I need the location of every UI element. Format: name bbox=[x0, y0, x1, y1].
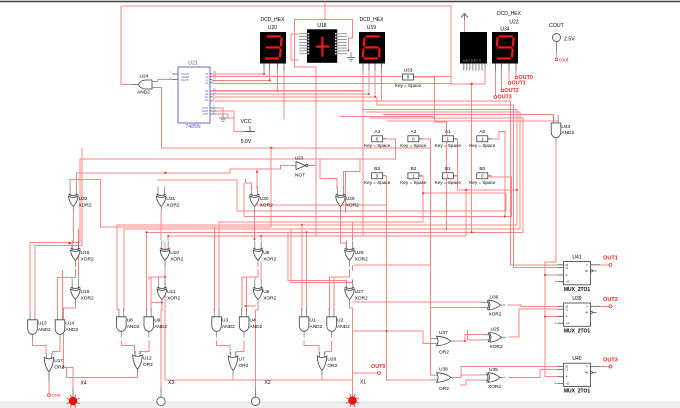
svg-text:AEQB: AEQB bbox=[202, 110, 209, 113]
svg-text:NOT: NOT bbox=[295, 173, 305, 179]
svg-text:OR2: OR2 bbox=[143, 362, 153, 368]
svg-text:U26: U26 bbox=[355, 250, 364, 256]
svg-text:U38: U38 bbox=[439, 367, 448, 373]
gate U17 OR2 bbox=[47, 353, 52, 358]
svg-text:U3: U3 bbox=[222, 318, 228, 324]
gate U12 OR2 bbox=[135, 351, 140, 356]
svg-text:U16: U16 bbox=[81, 289, 90, 295]
display U19 bbox=[359, 32, 385, 64]
svg-text:U2: U2 bbox=[337, 318, 343, 324]
wire U31 out to U10 bbox=[160, 213, 162, 240]
wire bus y83.7 bbox=[212, 83, 451, 85]
svg-text:AND2: AND2 bbox=[38, 327, 51, 333]
wire B2 vertical lower to U37 bbox=[423, 331, 431, 343]
svg-text:OR2: OR2 bbox=[439, 386, 449, 392]
svg-text:ALTB: ALTB bbox=[202, 113, 208, 116]
wire col4 row C feeders bbox=[288, 232, 346, 280]
svg-text:U36: U36 bbox=[490, 294, 499, 300]
wire AND outputs to OR inputs col4 bbox=[304, 341, 319, 354]
wire col2 row C feeders bbox=[158, 277, 160, 280]
wire U11 out branch tee bbox=[151, 302, 162, 304]
gate U8 AND2 bbox=[119, 308, 124, 317]
svg-text:Y: Y bbox=[586, 304, 588, 308]
gate U38 OR2 bbox=[431, 375, 438, 380]
wire U25 input2 bbox=[467, 330, 483, 340]
wire U35 out to U40 I1 bbox=[509, 369, 557, 377]
wire second pass-through col1 bbox=[81, 148, 83, 246]
svg-text:U22: U22 bbox=[509, 20, 518, 26]
svg-text:AND2: AND2 bbox=[127, 324, 140, 330]
wire bus y80.4 bbox=[212, 79, 270, 81]
svg-text:5.0V: 5.0V bbox=[241, 139, 252, 145]
svg-text:U27: U27 bbox=[355, 289, 364, 295]
svg-text:7485N: 7485N bbox=[185, 124, 201, 130]
svg-text:OUT2: OUT2 bbox=[603, 297, 618, 303]
svg-text:U40: U40 bbox=[572, 356, 581, 362]
wire U31 loop bbox=[157, 180, 237, 211]
svg-text:XOR2: XOR2 bbox=[170, 257, 183, 263]
net flag OUT3 right bbox=[600, 366, 609, 368]
wire U6 out branch tee bbox=[246, 305, 257, 307]
wire feeder band L2 y211 to U31 loop bbox=[237, 210, 506, 212]
svg-text:W: W bbox=[585, 269, 588, 273]
svg-text:AND2: AND2 bbox=[222, 324, 235, 330]
svg-text:U19: U19 bbox=[367, 25, 376, 31]
wire U5 out to U4 feeder bbox=[242, 269, 258, 311]
svg-text:Key = Space: Key = Space bbox=[435, 143, 462, 148]
net flag OUT1 right bbox=[600, 264, 609, 266]
svg-text:U23: U23 bbox=[295, 156, 304, 162]
gate U14 AND2 bbox=[58, 311, 63, 320]
svg-text:U9: U9 bbox=[154, 318, 160, 324]
wire U30 out to U5 bbox=[254, 213, 256, 240]
svg-text:VCC: VCC bbox=[241, 119, 252, 125]
wire cout segment y377.3 bbox=[67, 367, 138, 377]
svg-text:U6: U6 bbox=[263, 289, 269, 295]
svg-text:U18: U18 bbox=[317, 23, 326, 29]
ground near U21 bbox=[219, 115, 227, 122]
svg-text:U17: U17 bbox=[54, 358, 63, 364]
wire col2 U9 feeders bbox=[146, 280, 148, 311]
wire U37 out to U25 bbox=[456, 335, 484, 341]
wire U32 out to U15 bbox=[72, 213, 74, 242]
svg-text:MUX_2TO1: MUX_2TO1 bbox=[564, 329, 591, 335]
wire X1 drop bbox=[352, 378, 354, 396]
svg-text:U39: U39 bbox=[572, 296, 581, 302]
svg-text:A: A bbox=[566, 315, 568, 319]
svg-text:~G: ~G bbox=[566, 321, 571, 325]
gate U28 OR2 bbox=[320, 352, 325, 357]
svg-text:AND2: AND2 bbox=[337, 324, 350, 330]
gate U9 AND2 bbox=[146, 308, 151, 317]
gate U13 AND2 bbox=[30, 311, 35, 320]
svg-text:OAGTB: OAGTB bbox=[181, 73, 190, 76]
svg-text:AND2: AND2 bbox=[561, 130, 574, 136]
net flag OUT0 bbox=[515, 76, 518, 79]
display U18 plus box bbox=[307, 29, 337, 63]
wire U18 bottom-left drop bbox=[295, 47, 316, 237]
gate U35 XOR2 bbox=[481, 375, 488, 380]
wire U16 out toward X4 bbox=[64, 306, 76, 368]
svg-text:U15: U15 bbox=[81, 250, 90, 256]
svg-text:U5: U5 bbox=[263, 250, 269, 256]
wire A3 pass-through col1 bbox=[79, 159, 81, 243]
svg-text:Key = Space: Key = Space bbox=[364, 180, 391, 185]
svg-text:AND2: AND2 bbox=[310, 324, 323, 330]
gate U7 OR2 bbox=[231, 352, 236, 357]
wire U24 input1 lead bbox=[157, 81, 158, 83]
wire U24 output red lead-in bbox=[131, 84, 138, 86]
wire col3 xor feeder bbox=[260, 236, 262, 240]
svg-text:U28: U28 bbox=[327, 357, 336, 363]
wire select branches bbox=[545, 274, 557, 276]
wire U33 output route bbox=[413, 77, 446, 229]
svg-text:COUT: COUT bbox=[549, 23, 565, 29]
wire AND outputs to OR inputs col2 bbox=[121, 341, 134, 354]
display U34 bbox=[492, 32, 518, 64]
wire U35 inputs bbox=[461, 370, 482, 375]
wire feeder band L8 y236 bbox=[168, 236, 466, 240]
svg-text:MUX_2TO1: MUX_2TO1 bbox=[564, 389, 591, 395]
svg-text:U13: U13 bbox=[38, 321, 47, 327]
svg-text:XOR2: XOR2 bbox=[81, 296, 94, 302]
U21 left pins bbox=[172, 74, 178, 80]
svg-text:U14: U14 bbox=[65, 321, 74, 327]
svg-text:DCD_HEX: DCD_HEX bbox=[360, 17, 385, 23]
wire U24 input2 drop bbox=[160, 88, 430, 148]
svg-text:XOR2: XOR2 bbox=[346, 203, 359, 209]
wire pass-through left of U30 bbox=[243, 183, 245, 216]
svg-text:U30: U30 bbox=[260, 196, 269, 202]
svg-text:X1: X1 bbox=[360, 380, 366, 386]
wire U19 pin drops bbox=[362, 64, 364, 237]
net flag OUT2 bbox=[501, 89, 504, 92]
svg-text:B1: B1 bbox=[445, 166, 451, 172]
svg-text:I1: I1 bbox=[566, 266, 569, 270]
gate U6 XOR2 bbox=[255, 280, 261, 290]
wire U18 top feed from sheet top bbox=[324, 2, 326, 20]
svg-text:Y: Y bbox=[586, 263, 588, 267]
svg-text:DCD_HEX: DCD_HEX bbox=[497, 11, 522, 17]
wire bus y76.6 bbox=[212, 76, 451, 78]
wire A2 net bbox=[418, 139, 431, 375]
wire bus segment y116.5 bbox=[340, 116, 434, 118]
svg-text:B3: B3 bbox=[374, 166, 380, 172]
svg-text:XOR2: XOR2 bbox=[355, 296, 368, 302]
svg-text:A: A bbox=[566, 375, 568, 379]
wire feeder band B3 y205 bbox=[254, 204, 386, 206]
svg-text:Key = Space: Key = Space bbox=[400, 180, 427, 185]
svg-text:Y: Y bbox=[586, 365, 588, 369]
wire B3 long vertical to U38 bbox=[387, 205, 431, 380]
wire U15 out to U14 feeder bbox=[58, 269, 76, 311]
sheet top border bbox=[0, 1, 680, 3]
ground under U18 bbox=[347, 52, 355, 61]
gate U25 XOR2 bbox=[483, 335, 490, 340]
svg-text:U11: U11 bbox=[167, 289, 176, 295]
gate U11 XOR2 bbox=[159, 280, 165, 290]
wire U26 out horizontal to right bbox=[355, 264, 431, 266]
svg-text:U32: U32 bbox=[79, 196, 88, 202]
wire U29 input loop bbox=[320, 159, 337, 189]
wire U24 in1 to U21 left pin bbox=[158, 80, 172, 82]
svg-text:AND2: AND2 bbox=[65, 327, 78, 333]
wire U17 out to cout flag bbox=[48, 382, 50, 394]
svg-text:A0: A0 bbox=[479, 129, 485, 135]
wire A0 net bbox=[488, 131, 505, 216]
gate U32 XOR2 bbox=[70, 187, 76, 197]
svg-text:XOR2: XOR2 bbox=[81, 257, 94, 263]
svg-text:OALTB: OALTB bbox=[181, 79, 189, 82]
svg-text:I1: I1 bbox=[566, 368, 569, 372]
gate U43 AND2 vertical bbox=[554, 122, 559, 124]
wire U18 top loop bbox=[295, 20, 353, 51]
wire bus y96.9 bbox=[212, 96, 375, 98]
wire U27 out to X1 bbox=[350, 306, 353, 389]
gate U3 AND2 bbox=[214, 308, 219, 317]
svg-text:ABCDEFG: ABCDEFG bbox=[463, 59, 482, 63]
svg-text:OUT3: OUT3 bbox=[497, 94, 511, 100]
svg-text:Key = Space: Key = Space bbox=[400, 143, 427, 148]
wire U38 out to U40 I0 bbox=[456, 367, 557, 378]
net flag cout bottom bbox=[48, 394, 51, 397]
wire U12 out joins line A bbox=[137, 370, 139, 378]
wire U36 output to U39 bbox=[508, 305, 558, 306]
U21 right pins bbox=[210, 73, 212, 75]
svg-text:Key = Space: Key = Space bbox=[469, 143, 496, 148]
wire A3 net bbox=[80, 139, 396, 242]
svg-text:A2: A2 bbox=[410, 129, 416, 135]
svg-text:B0: B0 bbox=[479, 166, 485, 172]
wire X4 stem bbox=[72, 388, 74, 397]
svg-text:XOR2: XOR2 bbox=[355, 257, 368, 263]
svg-text:OUT1: OUT1 bbox=[603, 256, 618, 262]
wire bus y90.6 bbox=[212, 90, 363, 92]
svg-text:OUT1: OUT1 bbox=[512, 80, 526, 86]
svg-text:Key = Space: Key = Space bbox=[395, 83, 422, 88]
gate U30 XOR2 bbox=[251, 187, 257, 197]
svg-text:U41: U41 bbox=[572, 255, 581, 261]
svg-text:cout: cout bbox=[52, 393, 62, 399]
svg-text:OUT2: OUT2 bbox=[504, 88, 518, 94]
svg-text:U8: U8 bbox=[127, 318, 133, 324]
gate U27 XOR2 bbox=[346, 280, 352, 290]
wire feeder band L4 y222.2 bbox=[219, 222, 423, 311]
wire U10 out to U9 feeder bbox=[149, 266, 165, 281]
wire U21 lower pins to ground and VCC bbox=[216, 108, 223, 115]
wire U37 in1 branch bbox=[430, 338, 432, 340]
wire U7 out joins line B bbox=[232, 371, 234, 381]
svg-text:U12: U12 bbox=[143, 355, 152, 361]
junction U18 right pin bbox=[347, 49, 349, 51]
gate U1 AND2 bbox=[302, 308, 307, 317]
svg-text:A1: A1 bbox=[445, 129, 451, 135]
svg-text:U25: U25 bbox=[491, 327, 500, 333]
svg-text:XOR2: XOR2 bbox=[263, 257, 276, 263]
wire B3 net drop bbox=[386, 176, 388, 205]
wire bus B3 y91 bbox=[212, 90, 363, 92]
wire OUT0 net flag wire bbox=[353, 372, 378, 374]
wire feeder band L3 y216.5 bbox=[244, 216, 512, 218]
svg-text:AND2: AND2 bbox=[250, 324, 263, 330]
net flag OUT1 bbox=[508, 82, 511, 85]
wire col1 U13 feeders bbox=[30, 241, 80, 243]
svg-text:OR2: OR2 bbox=[239, 363, 249, 369]
svg-text:OAEQB: OAEQB bbox=[181, 76, 190, 79]
gate U26 XOR2 bbox=[346, 241, 352, 251]
svg-text:U37: U37 bbox=[439, 330, 448, 336]
svg-text:OR2: OR2 bbox=[327, 363, 337, 369]
svg-text:XOR2: XOR2 bbox=[489, 312, 502, 318]
wire U29 out to U26 bbox=[341, 213, 347, 248]
svg-text:XOR2: XOR2 bbox=[490, 344, 503, 350]
wire bus y101 long to U41 I0 bbox=[212, 101, 557, 265]
gate U29 XOR2 bbox=[337, 187, 343, 197]
wire U25 out to U39 I1 bbox=[509, 309, 558, 337]
svg-text:B2: B2 bbox=[410, 166, 416, 172]
wire U20 pin drops bbox=[263, 64, 265, 74]
wire col1 U32 input feeder bbox=[70, 180, 271, 228]
wire NOT output bbox=[313, 165, 316, 167]
svg-text:XOR2: XOR2 bbox=[263, 296, 276, 302]
svg-text:U33: U33 bbox=[404, 68, 413, 74]
svg-text:U7: U7 bbox=[239, 357, 245, 363]
wire U26 out to U2 feeder bbox=[329, 269, 349, 311]
net flag OUT3 bbox=[494, 96, 497, 99]
svg-text:XOR2: XOR2 bbox=[260, 203, 273, 209]
svg-text:U35: U35 bbox=[489, 367, 498, 373]
svg-text:OR2: OR2 bbox=[54, 364, 64, 370]
svg-text:XOR2: XOR2 bbox=[167, 296, 180, 302]
wire col4 xor feeder bbox=[352, 222, 354, 240]
wire feeder band L7 y232.3 bbox=[147, 232, 524, 280]
wire feeder band L5 y224.8 bbox=[117, 225, 517, 311]
wire B1 net drop bbox=[452, 175, 457, 177]
wire U11 out to X3 bbox=[160, 306, 163, 388]
svg-text:U4: U4 bbox=[250, 318, 256, 324]
wire bottom right long y331 bbox=[353, 330, 424, 332]
wire AND outputs to OR inputs col3 bbox=[217, 341, 231, 354]
svg-text:XOR2: XOR2 bbox=[166, 203, 179, 209]
net flag OUT0 bottom bbox=[378, 372, 381, 375]
svg-text:OR2: OR2 bbox=[439, 350, 449, 356]
wire B0 net drop bbox=[488, 176, 512, 217]
net flag OUT2 right bbox=[600, 305, 609, 307]
wire bus A3 row y73.8 bbox=[212, 73, 264, 75]
svg-text:U1: U1 bbox=[310, 318, 316, 324]
svg-text:Key = Space: Key = Space bbox=[364, 143, 391, 148]
svg-text:2.5V: 2.5V bbox=[564, 37, 575, 43]
svg-text:I1: I1 bbox=[566, 307, 569, 311]
gate U5 XOR2 bbox=[255, 241, 261, 251]
wire col1 feeder y172.8 to NOT bbox=[77, 166, 289, 189]
gate U15 XOR2 bbox=[72, 241, 78, 251]
gate U10 XOR2 bbox=[162, 241, 168, 251]
svg-text:X3: X3 bbox=[168, 380, 174, 386]
gate U16 XOR2 bbox=[72, 280, 78, 290]
svg-text:Key = Space: Key = Space bbox=[435, 180, 462, 185]
wire U30 input feeders bbox=[246, 179, 252, 189]
wire U29 pass-through bbox=[345, 172, 347, 214]
wire col3 row C feeders bbox=[254, 277, 256, 280]
gate U37 OR2 bbox=[431, 339, 438, 344]
wire col1 row C feeders bbox=[71, 278, 73, 280]
svg-text:OUT3: OUT3 bbox=[603, 357, 618, 363]
wire drop from y147.9 line bbox=[270, 147, 272, 149]
wire feeder band L6 y229 bbox=[124, 229, 520, 311]
wire VCC to U21 route bbox=[121, 84, 131, 86]
svg-text:~G: ~G bbox=[566, 381, 571, 385]
svg-text:A: A bbox=[566, 273, 568, 277]
wire U6 out to X2 bbox=[256, 306, 258, 388]
wire B2 net drop bbox=[418, 176, 423, 222]
svg-text:DCD_HEX: DCD_HEX bbox=[261, 17, 286, 23]
svg-text:X2: X2 bbox=[265, 380, 271, 386]
display U22 blank bbox=[460, 32, 487, 64]
wire U18 left side loop bbox=[291, 34, 299, 60]
wire col3 U3 feeders bbox=[213, 227, 215, 311]
net flag cout top bbox=[555, 58, 558, 61]
wire U15 input feeds bbox=[71, 242, 73, 249]
svg-text:MUX_2TO1: MUX_2TO1 bbox=[564, 287, 591, 293]
svg-text:U31: U31 bbox=[166, 196, 175, 202]
wire U34 pin leads bbox=[494, 71, 496, 97]
svg-text:U10: U10 bbox=[170, 250, 179, 256]
svg-text:U43: U43 bbox=[561, 124, 570, 130]
wire right OUT bus nest bbox=[377, 97, 557, 268]
svg-text:U24: U24 bbox=[140, 74, 149, 80]
svg-text:AGTB: AGTB bbox=[202, 107, 209, 110]
svg-text:W: W bbox=[585, 371, 588, 375]
svg-text:~G: ~G bbox=[566, 280, 571, 284]
svg-text:U34: U34 bbox=[500, 27, 509, 33]
wire U29 in2 feed bbox=[344, 159, 360, 189]
svg-text:W: W bbox=[585, 311, 588, 315]
wire vertical drop at x471.7 bbox=[471, 84, 473, 233]
svg-text:Key = Space: Key = Space bbox=[469, 180, 496, 185]
svg-text:XOR2: XOR2 bbox=[488, 384, 501, 390]
wire A1 net down to B1 bus bbox=[452, 139, 457, 190]
svg-text:X4: X4 bbox=[81, 381, 87, 387]
wire AND outputs to OR inputs col1 bbox=[33, 341, 46, 354]
wire line B y380.2 bbox=[165, 277, 353, 380]
wire bus B2 y94.1 bbox=[212, 93, 369, 95]
bottom scrollbar strip bbox=[0, 402, 680, 408]
gate U31 XOR2 bbox=[158, 187, 164, 197]
gate U24 AND2 mirrored bbox=[139, 80, 152, 89]
wire top net from U24 output to U22 bbox=[121, 6, 485, 85]
svg-text:AND2: AND2 bbox=[137, 90, 150, 96]
wire U43 output select net bbox=[545, 144, 557, 377]
svg-text:cout: cout bbox=[559, 58, 569, 64]
display U18 plus sign bbox=[316, 37, 329, 57]
svg-text:U20: U20 bbox=[268, 25, 277, 31]
wire U28 out joins line B bbox=[321, 371, 323, 381]
gate U2 AND2 bbox=[329, 308, 334, 317]
svg-text:U29: U29 bbox=[346, 196, 355, 202]
wire U36 inputs bbox=[353, 301, 483, 303]
power arrow above U22 bbox=[464, 18, 466, 32]
svg-text:U21: U21 bbox=[188, 61, 198, 67]
svg-text:AND2: AND2 bbox=[154, 324, 167, 330]
gate U4 AND2 bbox=[242, 308, 247, 317]
svg-text:XOR2: XOR2 bbox=[79, 203, 92, 209]
display U20 bbox=[260, 32, 286, 64]
svg-text:OUT0: OUT0 bbox=[371, 364, 385, 370]
gate U36 XOR2 bbox=[482, 302, 489, 307]
svg-text:A3: A3 bbox=[374, 129, 380, 135]
